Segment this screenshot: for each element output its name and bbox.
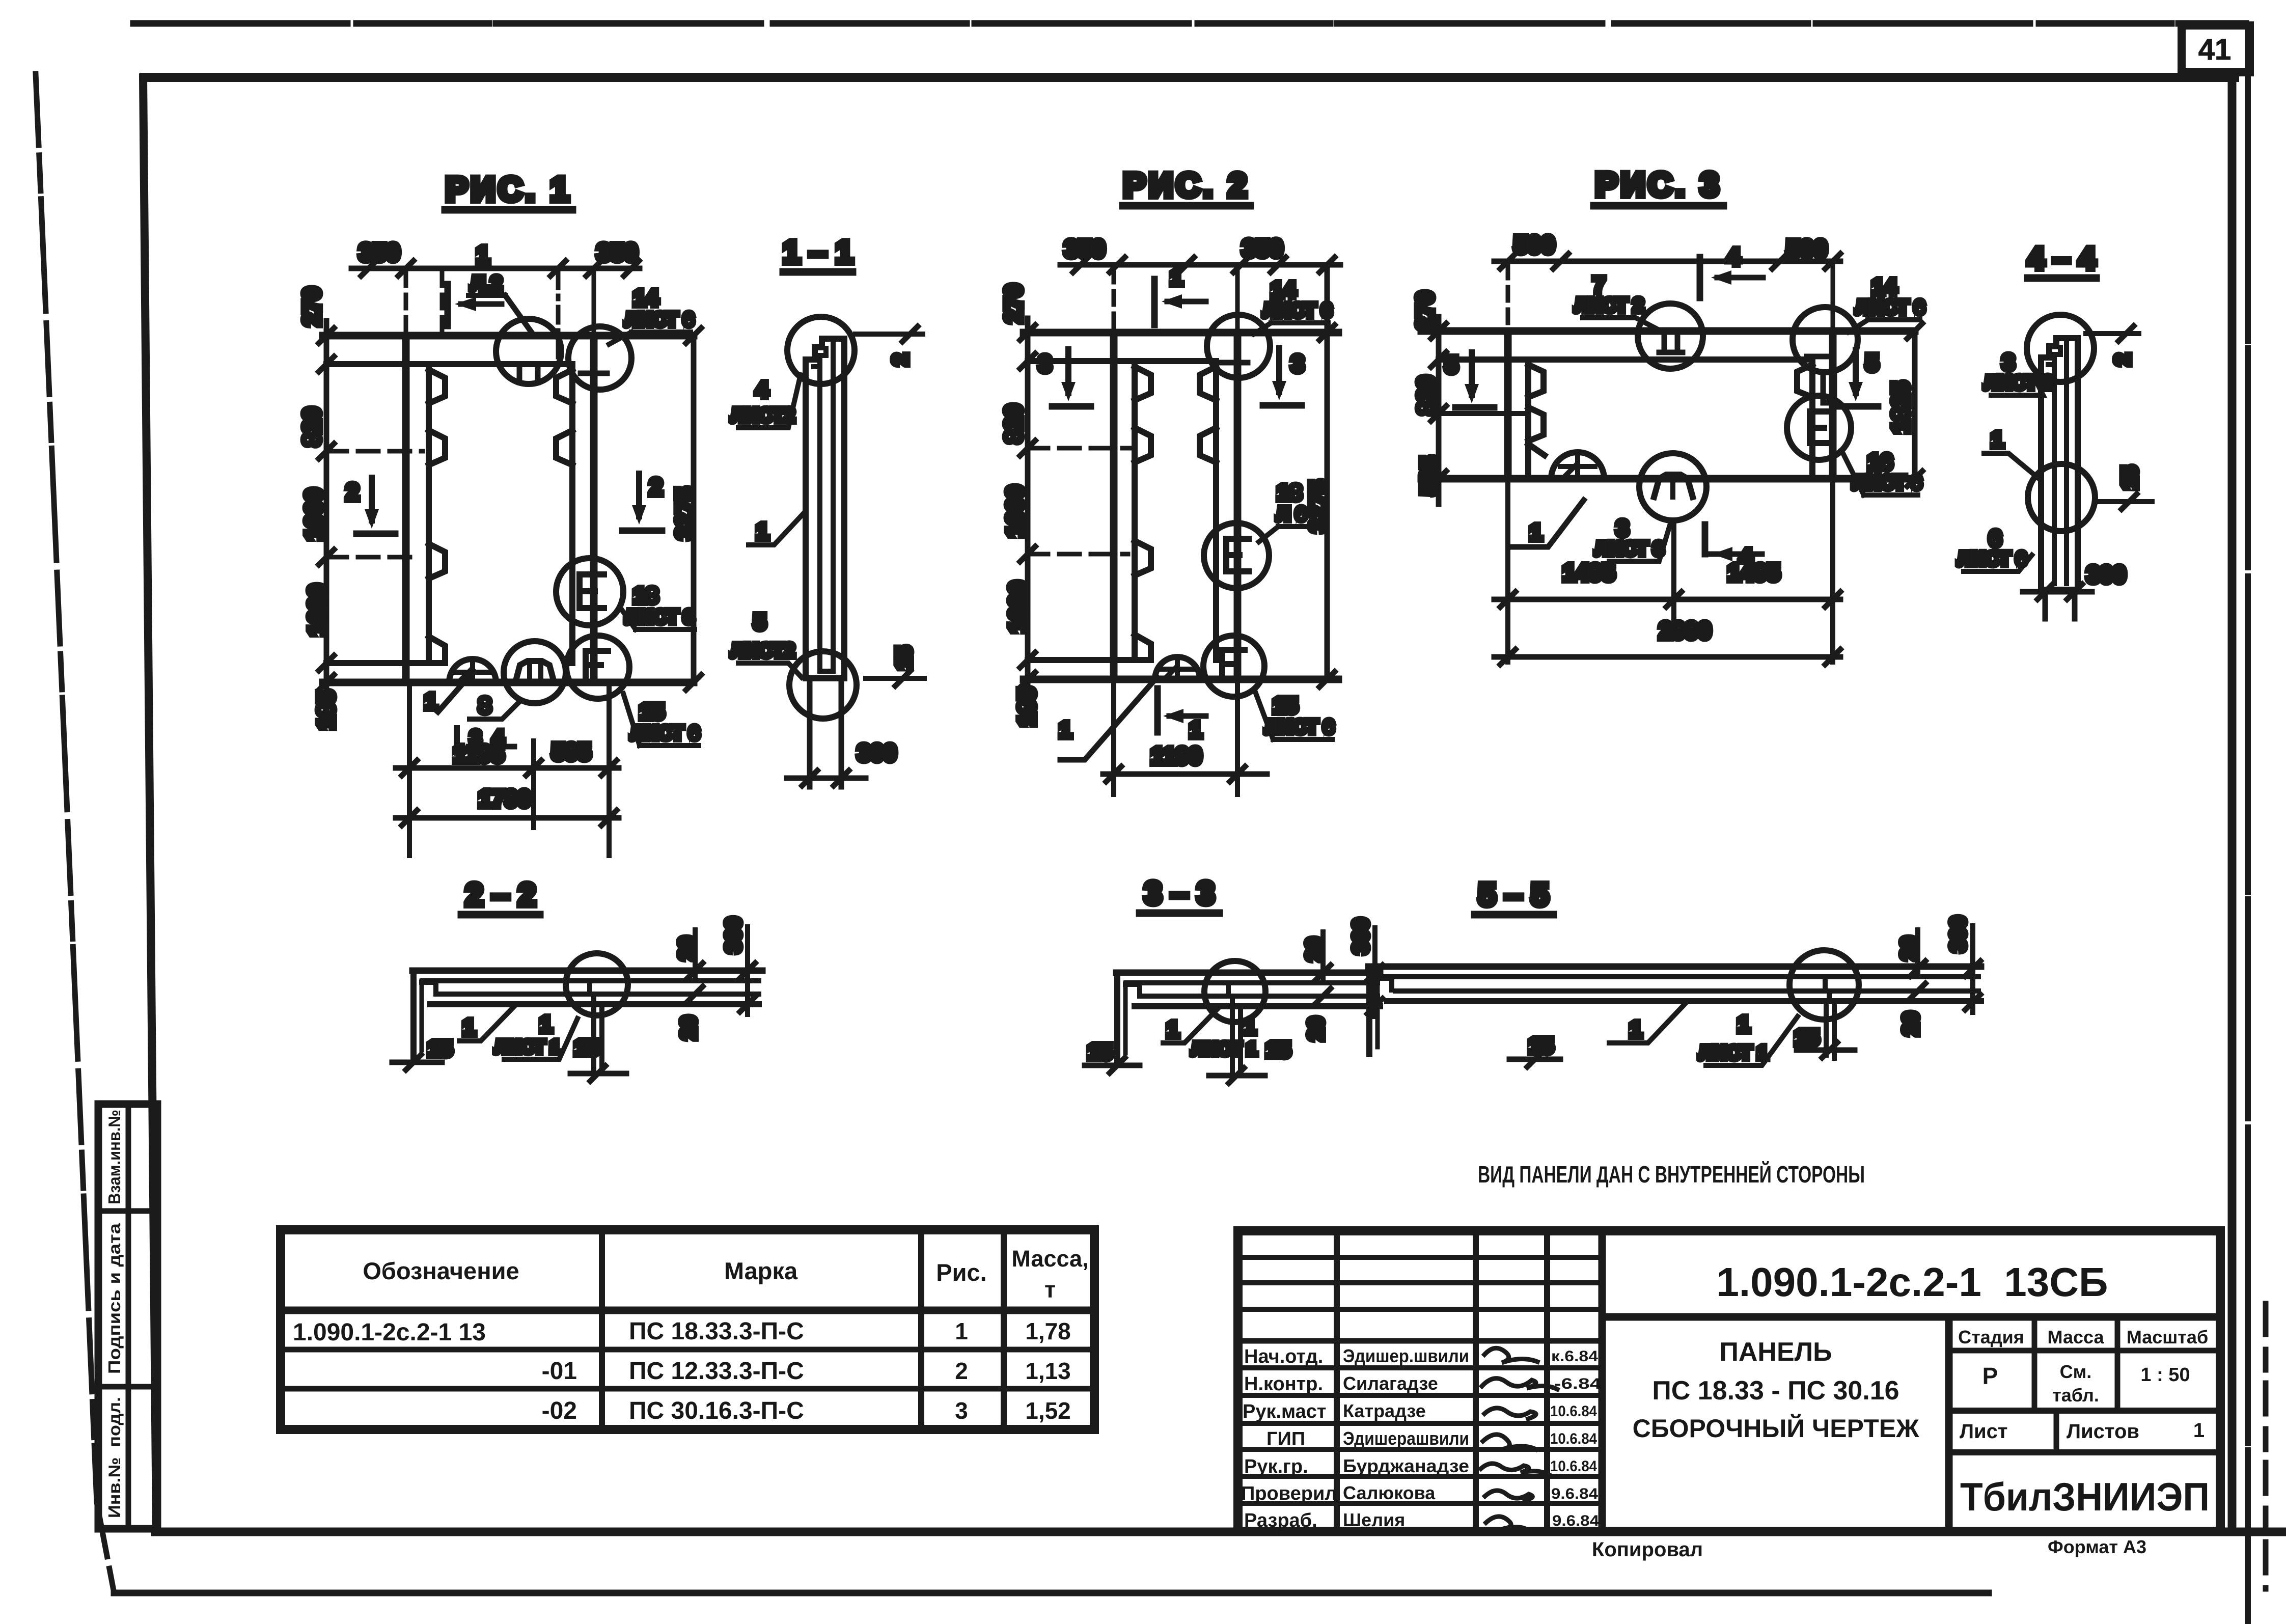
fig3 right rail outer — [1829, 331, 1837, 479]
fig3 detail circle bottom center — [1639, 453, 1706, 520]
fig1 panel inner bottom edge — [326, 660, 432, 666]
svg-text:1000: 1000 — [300, 488, 327, 540]
svg-text:Н.контр.: Н.контр. — [1244, 1373, 1323, 1395]
fig1 detail circle top right — [568, 326, 631, 390]
fig2 extension line 1088 — [1028, 552, 1128, 557]
svg-text:ЛИСТ2: ЛИСТ2 — [731, 640, 795, 662]
fig2 left rail notches — [1135, 367, 1151, 400]
svg-text:т: т — [1044, 1277, 1056, 1303]
svg-text:1825: 1825 — [1887, 381, 1914, 433]
fig2 right rail outer — [1234, 333, 1242, 679]
svg-text:ЛИСТ 6: ЛИСТ 6 — [1958, 548, 2026, 570]
svg-text:См.: См. — [2060, 1361, 2092, 1382]
fig3 extension line 812 — [1439, 411, 1528, 416]
svg-text:ПС 30.16.3-П-С: ПС 30.16.3-П-С — [629, 1397, 804, 1424]
svg-text:1: 1 — [425, 689, 437, 714]
sec11 profile walls — [803, 360, 809, 678]
paper right edge second line — [2263, 1304, 2269, 1589]
svg-text:1: 1 — [1530, 520, 1542, 545]
sec11 dim 2 top — [856, 332, 923, 337]
sec44 detail circle mid — [2028, 464, 2095, 531]
fig3 right rail notch — [1797, 365, 1812, 397]
Лист/Листов divider — [2054, 1411, 2059, 1452]
fig2 panel top edge — [1024, 329, 1338, 337]
svg-text:820: 820 — [298, 407, 325, 447]
svg-text:ПАНЕЛЬ: ПАНЕЛЬ — [1719, 1337, 1832, 1367]
svg-text:350: 350 — [1064, 236, 1105, 263]
svg-text:1: 1 — [1738, 1012, 1750, 1037]
svg-text:270: 270 — [298, 287, 325, 326]
svg-text:500: 500 — [1514, 232, 1555, 259]
svg-text:1195: 1195 — [453, 740, 504, 767]
sec11 detail circle bottom — [789, 651, 857, 719]
sec33 left hook — [1114, 973, 1120, 1060]
svg-text:1: 1 — [1190, 718, 1202, 742]
svg-text:270: 270 — [1412, 291, 1438, 331]
svg-text:Инв.№ подл.: Инв.№ подл. — [105, 1397, 124, 1518]
paper top edge (rough dashed) — [133, 20, 2246, 27]
spec table column Рис/Масса — [1001, 1230, 1007, 1429]
title block vertical col2 — [1473, 1231, 1479, 1531]
svg-text:5: 5 — [754, 610, 766, 635]
svg-text:ЛИСТ 1: ЛИСТ 1 — [495, 1036, 560, 1057]
svg-text:350: 350 — [597, 239, 638, 266]
svg-text:ЛИСТ 6: ЛИСТ 6 — [625, 309, 694, 331]
sec22 top sheet lines — [412, 968, 762, 974]
fig1 right rail inner — [569, 364, 575, 663]
fig1 right rail notches — [556, 370, 572, 403]
svg-text:Обозначение: Обозначение — [363, 1257, 519, 1284]
fig1 extension line 886 — [326, 449, 423, 454]
fig1 panel top edge — [323, 332, 694, 340]
fig2 detail circle mid right — [1204, 523, 1269, 588]
sec55 left hook — [1366, 967, 1372, 1054]
svg-text:3: 3 — [1291, 350, 1304, 377]
fig3 left rail inner — [1525, 360, 1531, 479]
fig1 panel bottom edge — [323, 679, 694, 686]
svg-text:ПС 18.33 - ПС 30.16: ПС 18.33 - ПС 30.16 — [1652, 1376, 1899, 1406]
sec55 detail circle — [1789, 950, 1859, 1020]
title block horizontal under doc number — [1602, 1313, 2220, 1321]
svg-text:4 – 4: 4 – 4 — [2027, 241, 2096, 276]
svg-text:РИС. 1: РИС. 1 — [446, 170, 572, 208]
sec55 lower sheet lines — [1395, 988, 1978, 994]
svg-text:ЛИСТ 6: ЛИСТ 6 — [1856, 297, 1924, 318]
sec44 legs — [2043, 590, 2048, 619]
svg-text:Л.2: Л.2 — [471, 272, 502, 295]
svg-text:-02: -02 — [542, 1397, 577, 1424]
svg-text:ЛИСТ 3: ЛИСТ 3 — [625, 607, 694, 628]
fig3 panel bottom edge — [1421, 475, 1915, 483]
svg-text:4: 4 — [1727, 243, 1740, 270]
sec44 dim 2 top — [2086, 331, 2139, 336]
sec22 right leg — [594, 1004, 602, 1072]
sec44 profile walls — [2038, 357, 2044, 590]
svg-text:300: 300 — [1946, 916, 1970, 952]
svg-text:РИС. 2: РИС. 2 — [1123, 166, 1250, 204]
main frame right line — [2228, 77, 2237, 1531]
svg-text:1: 1 — [1059, 718, 1071, 742]
svg-text:Бурджанадзе: Бурджанадзе — [1343, 1455, 1469, 1476]
svg-text:1,52: 1,52 — [1025, 1397, 1071, 1424]
svg-text:1: 1 — [476, 241, 489, 268]
svg-text:350: 350 — [1242, 235, 1283, 262]
svg-text:Масштаб: Масштаб — [2127, 1327, 2208, 1347]
svg-text:15: 15 — [2117, 466, 2141, 490]
svg-text:1000: 1000 — [1004, 581, 1031, 633]
svg-text:ПС 18.33.3-П-С: ПС 18.33.3-П-С — [629, 1318, 804, 1345]
spec table outer box — [281, 1230, 1094, 1429]
fig3 left dim chain — [1436, 317, 1442, 504]
svg-text:300: 300 — [2087, 561, 2126, 588]
fig3 left rail notches — [1528, 365, 1544, 397]
main frame top line — [145, 73, 2235, 82]
svg-text:16: 16 — [1868, 450, 1893, 475]
svg-text:ЛИСТ 1: ЛИСТ 1 — [1699, 1042, 1768, 1064]
title block vertical col1 — [1334, 1231, 1340, 1531]
svg-text:350: 350 — [359, 239, 400, 266]
fig1 top dimension line — [351, 266, 640, 271]
svg-text:Масса,: Масса, — [1011, 1246, 1088, 1272]
sec11 detail circle top — [787, 317, 855, 384]
sidebar column divider — [126, 1104, 131, 1529]
fig1 left rail outer — [402, 336, 410, 682]
fig1 right rail outer — [590, 336, 598, 682]
svg-text:8: 8 — [479, 693, 491, 718]
svg-text:-01: -01 — [542, 1358, 577, 1385]
svg-text:3: 3 — [955, 1397, 968, 1424]
sec11 legs — [807, 678, 813, 787]
svg-text:1 : 50: 1 : 50 — [2140, 1364, 2190, 1386]
svg-text:7: 7 — [1593, 272, 1605, 297]
svg-text:595: 595 — [552, 738, 591, 765]
fig3 detail circle top right — [1793, 307, 1858, 372]
fig2 detail circle bottom right — [1203, 636, 1264, 697]
fig2 panel inner bottom edge — [1028, 657, 1137, 663]
svg-text:1000: 1000 — [1002, 485, 1028, 537]
svg-text:1 – 1: 1 – 1 — [783, 235, 853, 270]
svg-text:1.090.1-2с.2-1 13: 1.090.1-2с.2-1 13 — [293, 1319, 486, 1346]
svg-text:-6.84: -6.84 — [1554, 1375, 1601, 1392]
svg-text:2: 2 — [346, 479, 359, 505]
svg-text:2 – 2: 2 – 2 — [465, 877, 536, 913]
svg-text:1: 1 — [955, 1318, 968, 1344]
fig3 panel top edge — [1421, 327, 1915, 335]
svg-text:табл.: табл. — [2052, 1385, 2099, 1406]
svg-text:3: 3 — [2002, 350, 2015, 375]
svg-text:РИС. 3: РИС. 3 — [1595, 166, 1722, 203]
main frame left line — [143, 77, 156, 1531]
svg-text:14: 14 — [1872, 274, 1897, 299]
fig2 right rail inner — [1213, 361, 1219, 660]
fig2 extension line 889 — [1028, 446, 1133, 451]
svg-text:10.6.84: 10.6.84 — [1550, 1458, 1597, 1475]
svg-text:Лист: Лист — [1960, 1420, 2008, 1443]
svg-text:2: 2 — [2110, 353, 2134, 365]
svg-text:2: 2 — [955, 1358, 968, 1384]
mini table vertical — [1945, 1317, 1953, 1531]
svg-text:185: 185 — [1013, 687, 1040, 727]
svg-text:к.6.84: к.6.84 — [1551, 1348, 1598, 1365]
fig2 extension dashes top — [1112, 269, 1116, 333]
sec44 detail circle top — [2027, 315, 2094, 382]
svg-text:ТбилЗНИИЭП: ТбилЗНИИЭП — [1960, 1474, 2210, 1519]
svg-text:Проверил: Проверил — [1241, 1483, 1337, 1504]
svg-text:9.6.84: 9.6.84 — [1551, 1485, 1598, 1502]
svg-text:ЛИСТ 6: ЛИСТ 6 — [630, 723, 699, 744]
svg-text:5: 5 — [1445, 351, 1458, 378]
svg-text:Силагадзе: Силагадзе — [1343, 1373, 1438, 1394]
svg-text:14: 14 — [1271, 278, 1296, 302]
sec22 detail circle — [566, 953, 628, 1015]
svg-text:300: 300 — [721, 917, 745, 953]
svg-text:20: 20 — [1898, 1012, 1922, 1036]
main frame bottom line — [155, 1528, 2282, 1536]
svg-text:1.090.1-2с.2-1 13СБ: 1.090.1-2с.2-1 13СБ — [1716, 1259, 2108, 1305]
sec55 top sheet lines — [1368, 964, 1981, 970]
paper bottom edge — [114, 1590, 1989, 1597]
Лист row underline — [1949, 1449, 2220, 1455]
svg-text:15: 15 — [1795, 1025, 1820, 1050]
svg-text:2990: 2990 — [1659, 617, 1711, 644]
sec33 detail circle — [1204, 961, 1265, 1022]
svg-text:20: 20 — [1304, 1017, 1328, 1041]
svg-text:Масса: Масса — [2048, 1327, 2105, 1347]
svg-text:5 – 5: 5 – 5 — [1478, 877, 1549, 913]
fig3 left rail outer — [1504, 331, 1512, 479]
svg-text:18: 18 — [1277, 480, 1302, 505]
svg-text:Листов: Листов — [2067, 1420, 2139, 1443]
sec33 right leg — [1232, 1006, 1241, 1074]
svg-text:Л 6: Л 6 — [1277, 504, 1306, 525]
fig1 panel inner top edge — [326, 361, 572, 367]
spec table column Обозначение/Марка — [599, 1230, 605, 1429]
fig1 detail circle bottom center — [504, 641, 566, 703]
sec22 left hook — [410, 971, 417, 1057]
sheet number box 41 — [2182, 25, 2250, 72]
svg-text:1190: 1190 — [1151, 742, 1202, 769]
fig2 top dimension line — [1060, 262, 1340, 268]
sidebar row divider 1 — [98, 1208, 157, 1214]
sec55 right leg — [1826, 1001, 1834, 1058]
svg-text:ЛИСТ 6: ЛИСТ 6 — [1265, 717, 1334, 738]
fig1 detail circle bottom right — [566, 636, 629, 699]
svg-text:10.6.84: 10.6.84 — [1550, 1430, 1597, 1447]
fig1 leader Л.2 to detail — [505, 295, 531, 331]
fig2 left rail inner — [1132, 361, 1138, 660]
svg-text:1790: 1790 — [479, 785, 531, 812]
fig1 left rail notches — [429, 370, 445, 403]
fig3 detail circle right mid — [1787, 396, 1851, 460]
svg-text:Эдишерашвили: Эдишерашвили — [1343, 1428, 1469, 1449]
svg-text:15: 15 — [1088, 1039, 1113, 1064]
svg-text:ЛИСТ 2: ЛИСТ 2 — [1575, 295, 1643, 316]
spec table header separator — [281, 1307, 1094, 1314]
sidebar row divider 2 — [98, 1384, 157, 1390]
svg-text:270: 270 — [1000, 284, 1027, 323]
svg-text:20: 20 — [676, 1016, 700, 1040]
svg-text:Стадия: Стадия — [1958, 1327, 2024, 1347]
svg-text:Рук.маст: Рук.маст — [1243, 1401, 1327, 1422]
fig1 detail circle top left — [496, 319, 561, 384]
svg-text:ЛИСТ 3: ЛИСТ 3 — [1595, 538, 1664, 560]
sec33 lower sheet lines — [1143, 994, 1378, 999]
svg-text:Копировал: Копировал — [1592, 1538, 1703, 1561]
svg-text:1: 1 — [756, 519, 768, 544]
svg-text:4: 4 — [756, 377, 768, 402]
svg-text:3 – 3: 3 – 3 — [1144, 876, 1215, 911]
fig2 detail circle top right — [1207, 315, 1270, 378]
sec11 profile top hook — [806, 339, 844, 360]
fig3 rail stub right — [1823, 372, 1834, 403]
fig1 left dim chain — [324, 321, 329, 726]
fig3 right rail inner — [1809, 360, 1815, 479]
sec44 profile bottom — [2041, 587, 2078, 593]
fig3 panel inner top edge — [1439, 356, 1812, 363]
svg-text:1495: 1495 — [1563, 559, 1615, 586]
spec table row line 2 — [281, 1386, 1094, 1392]
fig2 semicircle detail — [1155, 657, 1200, 679]
fig1 extension dashes top — [404, 272, 408, 336]
fig1 left rail inner — [426, 364, 432, 663]
title block vertical col3 — [1544, 1231, 1550, 1531]
spec table row line 1 — [281, 1347, 1094, 1353]
svg-text:820: 820 — [1413, 376, 1439, 415]
sec22 lower sheet lines — [439, 992, 759, 997]
svg-text:18: 18 — [634, 583, 658, 608]
svg-text:Салюкова: Салюкова — [1343, 1482, 1436, 1503]
svg-text:ГИП: ГИП — [1266, 1428, 1305, 1450]
svg-text:1: 1 — [1170, 265, 1182, 290]
fig3 top extension dashes — [1506, 265, 1510, 331]
svg-text:Катрадзе: Катрадзе — [1343, 1400, 1426, 1421]
svg-text:15: 15 — [640, 699, 665, 724]
svg-text:3: 3 — [1616, 516, 1629, 541]
mini table values underline — [1949, 1408, 2220, 1414]
svg-text:ЛИСТ2: ЛИСТ2 — [731, 405, 795, 426]
svg-text:3: 3 — [1038, 350, 1052, 377]
svg-text:5: 5 — [1865, 349, 1879, 376]
svg-text:1: 1 — [1244, 1014, 1256, 1039]
mini table header underline — [1949, 1348, 2220, 1354]
svg-text:1: 1 — [1630, 1017, 1642, 1042]
svg-text:10.6.84: 10.6.84 — [1550, 1403, 1597, 1420]
svg-text:Формат А3: Формат А3 — [2048, 1536, 2146, 1557]
sec44 profile top hook — [2041, 338, 2077, 357]
svg-text:1,13: 1,13 — [1025, 1358, 1071, 1384]
svg-text:300: 300 — [858, 739, 897, 766]
svg-text:1: 1 — [1167, 1017, 1179, 1042]
fig2 panel inner top edge — [1028, 358, 1216, 364]
fig2 right rail notches — [1200, 367, 1216, 400]
svg-text:Шелия: Шелия — [1343, 1509, 1405, 1530]
svg-text:1495: 1495 — [1728, 559, 1780, 586]
title block vertical col4 (left part end) — [1599, 1231, 1606, 1531]
mini table col Масштаб — [2115, 1317, 2120, 1411]
svg-text:Подпись и дата: Подпись и дата — [105, 1223, 124, 1374]
sec11 profile bottom — [806, 675, 844, 681]
svg-text:СБОРОЧНЫЙ ЧЕРТЕЖ: СБОРОЧНЫЙ ЧЕРТЕЖ — [1633, 1414, 1920, 1443]
svg-text:15: 15 — [1273, 693, 1298, 718]
fig2 panel bottom edge — [1024, 676, 1338, 683]
title block left rows — [1238, 1255, 1602, 1260]
spec table column Марка/Рис — [918, 1230, 924, 1429]
svg-text:9.6.84: 9.6.84 — [1552, 1512, 1599, 1529]
svg-text:6: 6 — [1989, 526, 2001, 551]
svg-text:ВИД ПАНЕЛИ ДАН С ВНУТРЕННЕЙ СТ: ВИД ПАНЕЛИ ДАН С ВНУТРЕННЕЙ СТОРОНЫ — [1478, 1161, 1865, 1188]
svg-text:Нач.отд.: Нач.отд. — [1244, 1346, 1323, 1367]
svg-text:820: 820 — [1000, 404, 1027, 444]
svg-text:2: 2 — [888, 353, 912, 365]
svg-text:15: 15 — [428, 1036, 453, 1061]
svg-text:Эдишер.швили: Эдишер.швили — [1343, 1345, 1469, 1366]
svg-text:Рис.: Рис. — [936, 1259, 986, 1286]
sec33 top sheet lines — [1116, 970, 1380, 976]
fig3 center line bottom — [1671, 520, 1676, 621]
svg-text:1: 1 — [463, 1015, 475, 1040]
fig2 left dim chain — [1025, 318, 1031, 723]
fig3 detail circle top center — [1638, 304, 1703, 369]
svg-text:Рук.гр.: Рук.гр. — [1244, 1456, 1308, 1477]
fig3 semicircle detail — [1551, 452, 1604, 479]
svg-text:1,78: 1,78 — [1025, 1318, 1071, 1344]
svg-text:1: 1 — [1991, 427, 2003, 452]
svg-text:Р: Р — [1982, 1363, 1998, 1389]
signature squiggles — [1484, 1348, 1537, 1363]
svg-text:300: 300 — [1348, 918, 1372, 954]
svg-text:15: 15 — [574, 1035, 599, 1060]
svg-text:ЛИСТ 6: ЛИСТ 6 — [1263, 300, 1332, 321]
svg-text:Марка: Марка — [724, 1257, 798, 1284]
svg-text:ЛИСТ 1: ЛИСТ 1 — [1192, 1038, 1257, 1059]
svg-text:Взам.инв.№: Взам.инв.№ — [105, 1110, 124, 1204]
svg-text:15: 15 — [892, 646, 916, 670]
svg-text:185: 185 — [313, 691, 339, 730]
fig1 detail circle mid right — [556, 558, 623, 625]
svg-text:1: 1 — [2193, 1419, 2205, 1442]
paper left edge (rough) — [36, 74, 114, 1593]
fig1 semicircle detail — [449, 659, 496, 682]
svg-text:15: 15 — [1266, 1037, 1291, 1062]
svg-text:500: 500 — [1786, 236, 1827, 263]
sidebar stamp box — [98, 1104, 157, 1529]
fig2 left rail outer — [1110, 333, 1118, 679]
title block outer box — [1238, 1231, 2220, 1531]
paper right edge (double rough) — [2245, 25, 2251, 1622]
svg-text:2: 2 — [649, 474, 663, 500]
svg-text:ПС 12.33.3-П-С: ПС 12.33.3-П-С — [629, 1358, 804, 1385]
fig1 extension line 1094 — [326, 555, 418, 560]
svg-text:14: 14 — [634, 286, 658, 311]
fig1 section cut 1 bar and arrow — [445, 284, 451, 326]
svg-text:1000: 1000 — [304, 584, 330, 636]
svg-text:Разраб.: Разраб. — [1244, 1510, 1317, 1531]
mini table col Масса — [2032, 1317, 2037, 1411]
svg-text:1: 1 — [540, 1012, 552, 1037]
fig3 top dimension line — [1494, 259, 1840, 264]
svg-text:41: 41 — [2198, 33, 2232, 66]
